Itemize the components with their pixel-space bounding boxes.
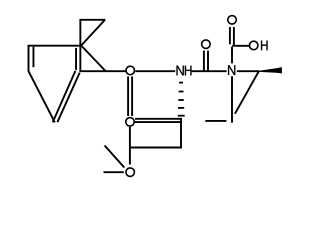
hashed wedge bond from NH down to ring carbon [178,83,185,116]
wire: methyl horizontal bond [104,171,124,173]
wire: ring lower-left edge [28,71,55,123]
wire: 4-ring top double line upper [135,118,182,120]
wire: 4-ring top double line lower [135,121,182,123]
bold wedge bond from alpha carbon to methyl [259,67,282,73]
wire: carboxyl C=O double line left [229,27,231,44]
wire: carboxyl C to OH [232,45,249,47]
wire: alpha carbon diagonal to ring bottom [235,71,259,114]
wire: 4-ring right edge [180,118,182,148]
wire: ring top edge [28,45,80,47]
label O ester oxygen [126,66,135,75]
label O amide carbonyl oxygen [202,40,211,49]
wire: amide C=O double line left [203,51,205,71]
wire: methyl stub [205,120,226,122]
wire: ring lower-right double bond inner line [57,73,79,123]
wire: ring left double bond inner line [32,47,34,67]
label OH hydroxyl [249,41,267,51]
wire: ring lower-right edge (double bond outer line) [53,71,76,122]
wire: cyclopropane hypotenuse [81,20,105,46]
label O methoxy oxygen [126,168,135,177]
wire: amide C=O double line right [207,51,209,71]
wire: ring left edge (double bond outer line) [28,45,30,71]
label N ring nitrogen [228,65,235,75]
wire: ester O=O double line left [127,76,129,116]
wire: NH to ring N chain [192,70,227,72]
wire: N down vertical [231,76,233,123]
wire: cyclopropane top edge [80,19,106,21]
wire: N up to carboxyl carbon [231,47,233,64]
wire: lower triangle diagonal [82,46,106,71]
wire: carboxyl C=O double line right [233,27,235,45]
wire: 4-ring bottom edge [129,147,182,149]
wire: methyl diagonal bond [105,146,125,168]
wire: ester O to NH [135,70,175,72]
label O carboxyl carbonyl oxygen [228,16,237,25]
wire: ester O=O double line right [131,76,133,116]
wire: ring carbon to ester O [79,70,125,72]
wire: ring right double bond inner line [75,48,77,70]
wire: ring right edge and spiro vertical [79,19,81,72]
wire: N to alpha carbon [237,70,259,72]
label NH amide [177,66,192,76]
label O ester carbonyl oxygen [126,118,135,127]
wire: 4-ring left vertical down to methoxy O [129,127,131,165]
